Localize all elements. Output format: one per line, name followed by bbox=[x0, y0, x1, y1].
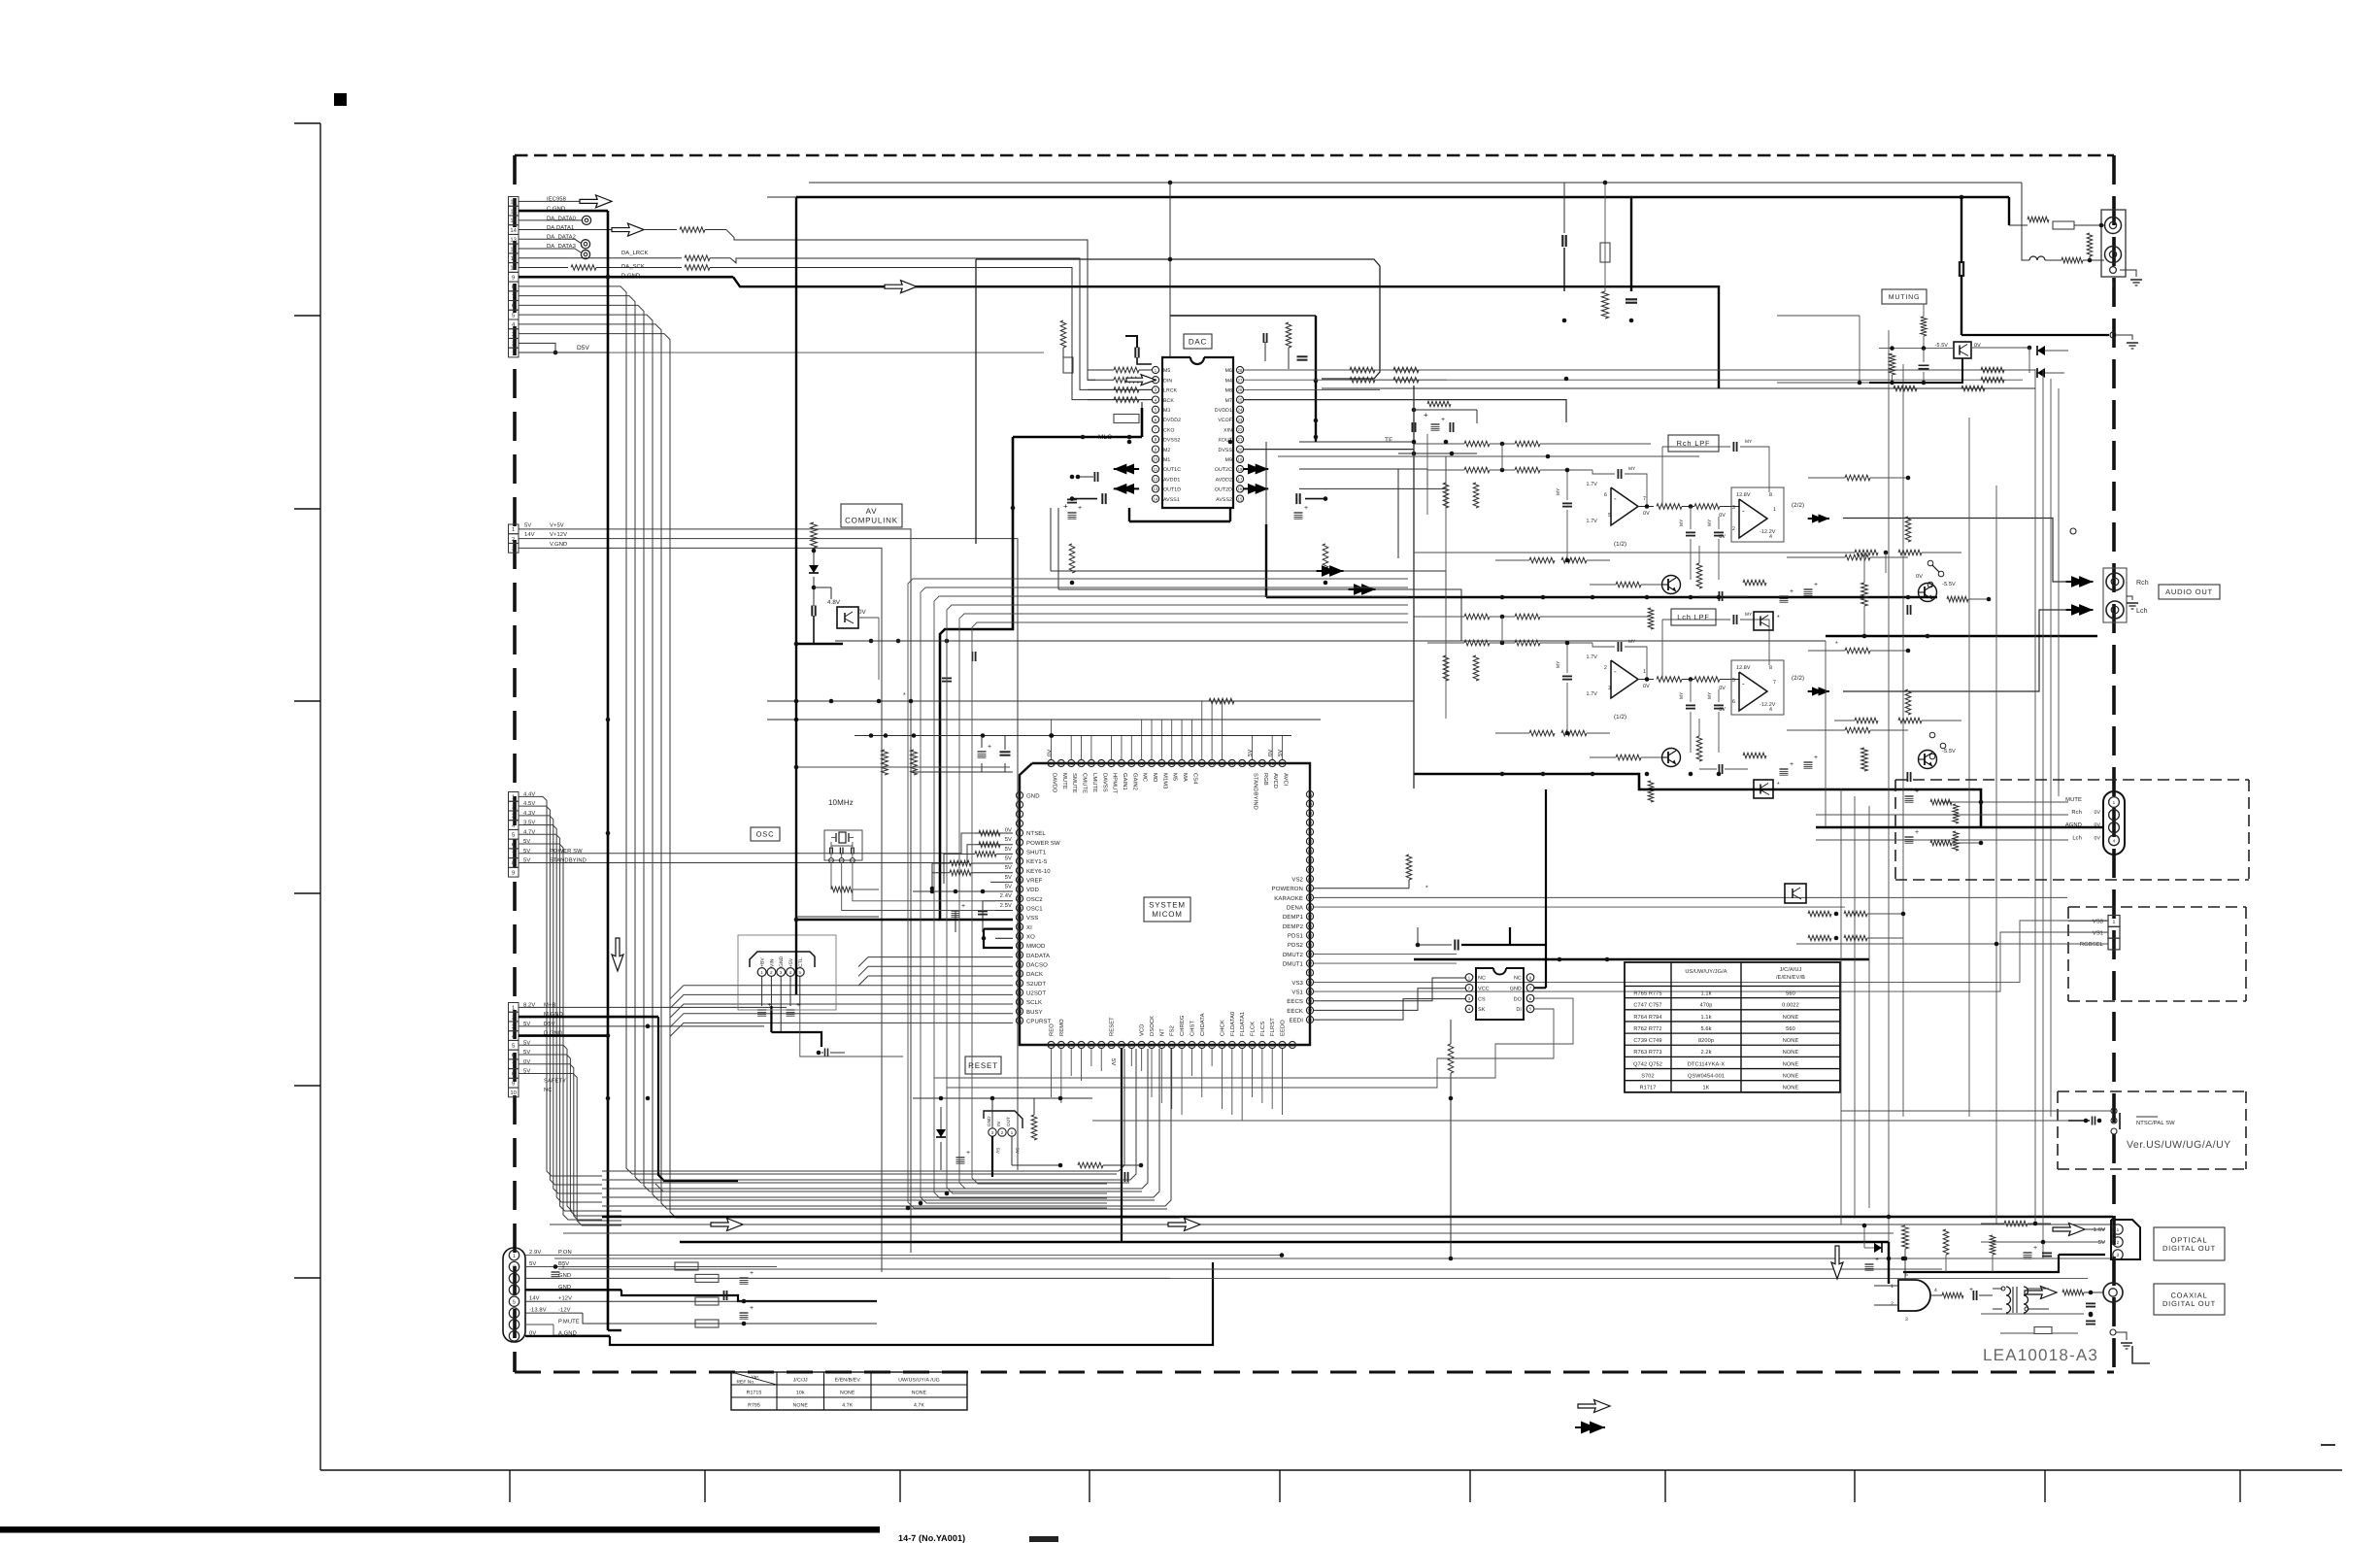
junction bbox=[1887, 1215, 1892, 1220]
junction bbox=[1605, 957, 1610, 962]
svg-text:0V: 0V bbox=[1916, 574, 1923, 580]
svg-text:NTSC/PAL SW: NTSC/PAL SW bbox=[2136, 1120, 2175, 1126]
capacitor bbox=[1906, 605, 1908, 615]
junction bbox=[930, 889, 935, 894]
junction bbox=[990, 1096, 995, 1101]
svg-text:9: 9 bbox=[512, 274, 515, 281]
svg-text:GAIN1: GAIN1 bbox=[1122, 773, 1128, 790]
pin bbox=[1306, 988, 1313, 994]
transistor Q bbox=[1662, 749, 1681, 767]
wire bbox=[1664, 1470, 1666, 1502]
svg-text:10: 10 bbox=[510, 1090, 517, 1096]
pin bbox=[2103, 1283, 2123, 1302]
svg-text:3: 3 bbox=[512, 1023, 515, 1030]
svg-text:560: 560 bbox=[1786, 990, 1795, 996]
capacitor bbox=[1617, 642, 1619, 652]
resistor bbox=[1448, 1044, 1454, 1073]
svg-text:AUDIO OUT: AUDIO OUT bbox=[2165, 587, 2213, 596]
pin bbox=[851, 858, 855, 863]
wire bbox=[1993, 1288, 2002, 1290]
svg-text:TF: TF bbox=[1385, 437, 1392, 444]
pin bbox=[2109, 251, 2116, 257]
junction bbox=[794, 765, 799, 770]
svg-text:4: 4 bbox=[1934, 1288, 1937, 1293]
wire bbox=[608, 1329, 621, 1331]
svg-text:5V: 5V bbox=[1005, 855, 1012, 861]
svg-text:0V: 0V bbox=[1047, 750, 1054, 756]
wire bbox=[913, 1097, 1092, 1099]
capacitor bbox=[2092, 1117, 2094, 1125]
svg-text:4: 4 bbox=[789, 970, 792, 975]
box bbox=[509, 253, 520, 263]
svg-text:CTL: CTL bbox=[798, 957, 804, 967]
svg-text:R762 R772: R762 R772 bbox=[1633, 1026, 1661, 1032]
wire bbox=[1867, 913, 1903, 915]
wire bbox=[294, 508, 320, 510]
photocoupler bbox=[837, 607, 858, 628]
wire bbox=[858, 976, 1013, 986]
resistor bbox=[1844, 935, 1867, 941]
svg-text:SYSTEM: SYSTEM bbox=[1149, 901, 1186, 910]
junction bbox=[896, 639, 901, 644]
wire bbox=[1718, 712, 1720, 753]
svg-text:NC: NC bbox=[1514, 976, 1522, 982]
svg-text:12.8V: 12.8V bbox=[1736, 665, 1751, 671]
junction bbox=[1500, 615, 1505, 620]
svg-text:OSC1: OSC1 bbox=[1026, 905, 1043, 912]
wire bbox=[1051, 571, 1446, 615]
svg-text:2: 2 bbox=[2117, 1240, 2120, 1245]
wire bbox=[1051, 720, 1053, 735]
pin bbox=[1306, 1007, 1313, 1014]
pin bbox=[2109, 221, 2116, 228]
wire bbox=[995, 910, 1013, 912]
label box bbox=[965, 1057, 1001, 1074]
resistor bbox=[1990, 1235, 1995, 1255]
wire bbox=[1314, 962, 1457, 964]
wire bbox=[796, 919, 1013, 921]
wire bbox=[519, 1045, 621, 1211]
svg-text:38: 38 bbox=[1169, 1043, 1174, 1048]
svg-text:REMO: REMO bbox=[1058, 1019, 1065, 1036]
junction bbox=[1565, 731, 1570, 736]
wire bbox=[1698, 546, 1700, 563]
junction bbox=[794, 699, 799, 704]
op-amp bbox=[1739, 499, 1767, 538]
pin bbox=[1152, 486, 1158, 492]
wire bbox=[1902, 364, 1904, 1117]
svg-text:58: 58 bbox=[1308, 952, 1313, 956]
pin bbox=[2110, 332, 2116, 338]
wire bbox=[858, 957, 1013, 967]
wire bbox=[1690, 507, 1692, 530]
box bbox=[509, 858, 520, 868]
svg-text:+: + bbox=[966, 1150, 970, 1157]
wire bbox=[1241, 1049, 1243, 1121]
svg-text:17: 17 bbox=[1238, 477, 1243, 482]
wire bbox=[830, 842, 832, 849]
svg-text:25: 25 bbox=[1238, 397, 1243, 402]
wire bbox=[1057, 508, 1059, 589]
junction bbox=[1922, 346, 1927, 351]
wire bbox=[814, 587, 831, 588]
wire bbox=[830, 879, 832, 889]
wire bbox=[509, 1470, 511, 1502]
junction bbox=[1541, 772, 1546, 777]
box bbox=[509, 1050, 520, 1059]
junction bbox=[1500, 772, 1505, 777]
wire bbox=[1630, 197, 1632, 291]
wire bbox=[972, 622, 1408, 1184]
wire bbox=[1501, 444, 1503, 470]
svg-text:+: + bbox=[1063, 502, 1068, 511]
wire bbox=[1398, 453, 1477, 454]
wire bbox=[2045, 259, 2062, 261]
svg-text:P.MUTE: P.MUTE bbox=[558, 1320, 580, 1325]
junction bbox=[1449, 1257, 1454, 1261]
svg-text:OUT: OUT bbox=[1006, 1117, 1011, 1126]
wire bbox=[1299, 468, 1398, 470]
pin bbox=[1306, 856, 1313, 863]
svg-text:31: 31 bbox=[1099, 1043, 1104, 1048]
svg-text:NONE: NONE bbox=[840, 1391, 855, 1396]
pin bbox=[1236, 377, 1243, 384]
resistor bbox=[1060, 320, 1066, 348]
wire bbox=[2132, 1346, 2150, 1363]
junction bbox=[1127, 435, 1132, 440]
wire bbox=[731, 1396, 967, 1398]
resistor bbox=[1078, 1162, 1103, 1168]
svg-text:1: 1 bbox=[512, 1006, 515, 1012]
svg-text:52: 52 bbox=[1308, 1008, 1313, 1013]
wire bbox=[519, 833, 975, 854]
junction bbox=[1995, 942, 1999, 947]
pin bbox=[1306, 903, 1313, 910]
svg-text:0V: 0V bbox=[1005, 826, 1012, 833]
wire bbox=[1314, 989, 1465, 1011]
fuse bbox=[2034, 1327, 2052, 1334]
wire bbox=[2008, 197, 2010, 218]
pin bbox=[1306, 1016, 1313, 1023]
svg-text:93: 93 bbox=[1120, 761, 1124, 766]
svg-text:EECS: EECS bbox=[1287, 998, 1303, 1005]
wire bbox=[670, 1023, 1013, 1036]
svg-text:3: 3 bbox=[1905, 1317, 1908, 1323]
svg-text:8: 8 bbox=[512, 1071, 515, 1078]
pin bbox=[1198, 759, 1205, 766]
wire bbox=[995, 900, 1013, 902]
wire bbox=[563, 1232, 1894, 1234]
wire bbox=[2068, 906, 2246, 908]
svg-text:0V: 0V bbox=[1267, 750, 1274, 756]
capacitor electrolytic bbox=[1804, 762, 1813, 768]
junction bbox=[1689, 595, 1693, 600]
junction bbox=[1500, 442, 1505, 447]
wire bbox=[1121, 735, 1123, 759]
wire bbox=[1004, 763, 1006, 772]
svg-text:470p: 470p bbox=[1700, 1003, 1713, 1009]
capacitor bbox=[1626, 298, 1637, 300]
svg-text:FLCS: FLCS bbox=[1259, 1022, 1266, 1036]
capacitor bbox=[723, 1291, 725, 1300]
svg-text:DA_SCK: DA_SCK bbox=[621, 263, 645, 270]
wire bbox=[2058, 1090, 2246, 1092]
junction bbox=[2084, 1119, 2089, 1124]
junction bbox=[1717, 772, 1722, 777]
svg-text:VS1: VS1 bbox=[1291, 989, 1303, 995]
wire bbox=[1169, 316, 1171, 357]
box bbox=[509, 1040, 520, 1050]
wire bbox=[1725, 595, 1748, 597]
svg-text:0V: 0V bbox=[1719, 513, 1726, 519]
signal flow arrow bbox=[1248, 484, 1261, 494]
wire bbox=[1221, 1049, 1223, 1109]
wire bbox=[796, 766, 1010, 768]
svg-text:7: 7 bbox=[512, 1062, 515, 1068]
svg-text:1: 1 bbox=[2113, 800, 2116, 805]
wire bbox=[870, 1372, 872, 1410]
wire bbox=[2022, 183, 2029, 260]
svg-text:IN: IN bbox=[996, 1122, 1001, 1126]
svg-text:+: + bbox=[561, 1264, 565, 1271]
pin bbox=[1306, 828, 1313, 835]
junction bbox=[2088, 258, 2093, 263]
svg-text:5V: 5V bbox=[1110, 1058, 1116, 1065]
resistor bbox=[1905, 517, 1911, 542]
svg-text:8: 8 bbox=[512, 860, 515, 867]
wire bbox=[893, 240, 1095, 380]
svg-text:0V: 0V bbox=[1643, 684, 1650, 689]
wire bbox=[1625, 986, 1840, 988]
svg-text:M6: M6 bbox=[1225, 368, 1232, 374]
junction bbox=[1884, 551, 1889, 555]
junction bbox=[1412, 408, 1417, 413]
svg-text:10: 10 bbox=[510, 265, 517, 272]
wire bbox=[2112, 282, 2114, 287]
wire bbox=[813, 548, 815, 568]
resistor bbox=[1464, 614, 1490, 620]
wire bbox=[1072, 498, 1097, 500]
svg-text:E/EN/B/EV: E/EN/B/EV bbox=[835, 1378, 861, 1384]
pin bbox=[509, 1261, 519, 1271]
wire bbox=[780, 977, 782, 1007]
wire bbox=[294, 892, 320, 894]
pin bbox=[1108, 1041, 1115, 1048]
wire bbox=[1808, 477, 1845, 479]
junction bbox=[1645, 772, 1650, 777]
svg-text:PDS1: PDS1 bbox=[1288, 932, 1304, 939]
wire bbox=[1130, 735, 1132, 759]
wire bbox=[1265, 442, 1267, 524]
resistor bbox=[2062, 257, 2083, 263]
svg-text:27: 27 bbox=[1058, 1043, 1063, 1048]
svg-text:MY: MY bbox=[1556, 660, 1561, 668]
svg-text:-12.2V: -12.2V bbox=[1760, 529, 1776, 535]
wire bbox=[1625, 1032, 1840, 1034]
wire bbox=[1090, 735, 1092, 759]
resistor bbox=[1845, 648, 1870, 654]
wire bbox=[1081, 735, 1083, 759]
wire bbox=[2050, 379, 2052, 1117]
wire bbox=[519, 286, 1117, 1174]
svg-text:QSW0454-001: QSW0454-001 bbox=[1688, 1074, 1725, 1080]
resistor bbox=[1443, 655, 1449, 681]
wire bbox=[1690, 712, 1692, 753]
wire bbox=[796, 196, 2009, 198]
pin bbox=[1016, 1017, 1022, 1023]
wire bbox=[1843, 519, 2071, 583]
resistor bbox=[1114, 377, 1139, 383]
svg-text:REF No.: REF No. bbox=[736, 1380, 754, 1386]
wire bbox=[2245, 907, 2247, 1001]
junction bbox=[1081, 435, 1086, 440]
junction bbox=[1500, 641, 1505, 646]
svg-text:V.GND: V.GND bbox=[550, 541, 567, 548]
junction bbox=[1449, 1096, 1454, 1101]
wire bbox=[519, 238, 575, 240]
svg-text:2: 2 bbox=[1001, 1130, 1004, 1135]
svg-text:65: 65 bbox=[1308, 887, 1313, 891]
signal flow arrow bbox=[711, 1219, 743, 1231]
pin bbox=[1465, 974, 1473, 982]
box bbox=[509, 1059, 520, 1069]
junction bbox=[1076, 475, 1081, 480]
svg-text:1: 1 bbox=[2113, 920, 2116, 925]
label box bbox=[2154, 1284, 2225, 1315]
wire bbox=[519, 296, 1129, 1183]
fuse bbox=[1114, 415, 1139, 423]
wire bbox=[1171, 1049, 1173, 1109]
junction bbox=[794, 718, 799, 722]
pin bbox=[1016, 886, 1022, 892]
svg-text:37: 37 bbox=[1159, 1043, 1164, 1048]
capacitor bbox=[1454, 940, 1456, 951]
pin bbox=[1138, 759, 1145, 766]
wire bbox=[670, 1014, 1013, 1027]
svg-text:R764 R794: R764 R794 bbox=[1633, 1015, 1661, 1021]
resistor bbox=[1930, 799, 1952, 805]
svg-text:FS2: FS2 bbox=[1169, 1025, 1176, 1036]
svg-text:4: 4 bbox=[1769, 534, 1772, 540]
svg-text:DEMP2: DEMP2 bbox=[1283, 923, 1304, 930]
junction bbox=[1926, 634, 1930, 639]
svg-text:3: 3 bbox=[512, 331, 515, 338]
resistor bbox=[1443, 483, 1449, 508]
svg-text:0.0022: 0.0022 bbox=[1782, 1003, 1799, 1009]
svg-text:16: 16 bbox=[1238, 486, 1243, 491]
wire bbox=[932, 872, 950, 874]
svg-text:J/C/A/UJ: J/C/A/UJ bbox=[1780, 966, 1802, 973]
wire bbox=[1414, 443, 1464, 445]
wire bbox=[1540, 443, 1651, 445]
capacitor bbox=[2086, 1320, 2095, 1322]
wire bbox=[1566, 470, 1568, 500]
wire bbox=[319, 123, 321, 1470]
wire bbox=[1625, 1080, 1840, 1082]
wire bbox=[1139, 379, 1152, 381]
svg-text:3: 3 bbox=[512, 813, 515, 820]
wire bbox=[519, 305, 1142, 1191]
svg-text:MY: MY bbox=[1745, 612, 1753, 618]
wire bbox=[1414, 409, 1477, 411]
wire bbox=[1826, 635, 2097, 637]
svg-text:DAVDD: DAVDD bbox=[1052, 773, 1057, 792]
capacitor bbox=[1906, 772, 1908, 782]
svg-text:+: + bbox=[1424, 411, 1428, 419]
wire bbox=[1892, 375, 1894, 383]
svg-text:94: 94 bbox=[1109, 761, 1114, 766]
signal flow arrow bbox=[1168, 1219, 1200, 1231]
svg-text:99: 99 bbox=[1058, 761, 1063, 766]
svg-text:2.9V: 2.9V bbox=[529, 1249, 541, 1256]
junction bbox=[919, 1201, 923, 1206]
wire bbox=[1141, 720, 1143, 759]
test point bbox=[581, 240, 589, 249]
fuse bbox=[1063, 357, 1073, 373]
junction bbox=[1564, 377, 1569, 382]
svg-text:-12.2V: -12.2V bbox=[1760, 702, 1776, 708]
ground bbox=[2127, 602, 2138, 604]
junction bbox=[1070, 475, 1075, 480]
junction bbox=[1862, 634, 1867, 639]
photocoupler bbox=[1785, 884, 1806, 903]
svg-text:5V: 5V bbox=[1005, 837, 1012, 843]
svg-text:*: * bbox=[1777, 615, 1780, 621]
box bbox=[509, 792, 520, 802]
svg-text:4.8V: 4.8V bbox=[827, 599, 841, 606]
resistor bbox=[2062, 1290, 2084, 1295]
box bbox=[509, 1022, 520, 1031]
wire bbox=[1092, 1120, 2068, 1122]
resistor bbox=[680, 227, 705, 233]
wire bbox=[2136, 1116, 2158, 1118]
resistor bbox=[1286, 322, 1291, 348]
wire bbox=[1870, 650, 1908, 652]
svg-text:28: 28 bbox=[1069, 1043, 1074, 1048]
svg-text:J/C/JJ: J/C/JJ bbox=[793, 1378, 808, 1384]
svg-text:0V: 0V bbox=[1719, 534, 1726, 540]
svg-text:13: 13 bbox=[1018, 906, 1022, 911]
pin bbox=[1228, 1041, 1235, 1048]
wire bbox=[1051, 735, 1053, 759]
wire bbox=[1670, 962, 1672, 1092]
wire bbox=[1211, 701, 1213, 759]
svg-text:GND: GND bbox=[558, 1272, 571, 1279]
wire bbox=[770, 977, 772, 1007]
box bbox=[509, 338, 520, 348]
wire bbox=[1201, 701, 1203, 759]
svg-text:OUT1C: OUT1C bbox=[1163, 467, 1181, 473]
wire bbox=[519, 1006, 787, 1008]
resistor bbox=[1473, 655, 1479, 681]
wire bbox=[1904, 1249, 1906, 1280]
wire bbox=[1625, 1009, 1840, 1011]
capacitor bbox=[1134, 348, 1136, 358]
wire bbox=[1288, 348, 1290, 369]
ground bbox=[2127, 342, 2138, 344]
wire bbox=[2083, 259, 2104, 261]
svg-text:29: 29 bbox=[1079, 1043, 1084, 1048]
svg-text:AVSS1: AVSS1 bbox=[1163, 497, 1180, 503]
junction bbox=[1546, 454, 1551, 459]
svg-text:MMOD: MMOD bbox=[1026, 943, 1046, 950]
wire bbox=[1141, 1049, 1143, 1071]
photocoupler bbox=[1954, 342, 1971, 358]
junction bbox=[909, 699, 914, 704]
svg-text:18: 18 bbox=[1238, 467, 1243, 472]
capacitor bbox=[1449, 422, 1451, 432]
pin bbox=[1465, 985, 1473, 992]
